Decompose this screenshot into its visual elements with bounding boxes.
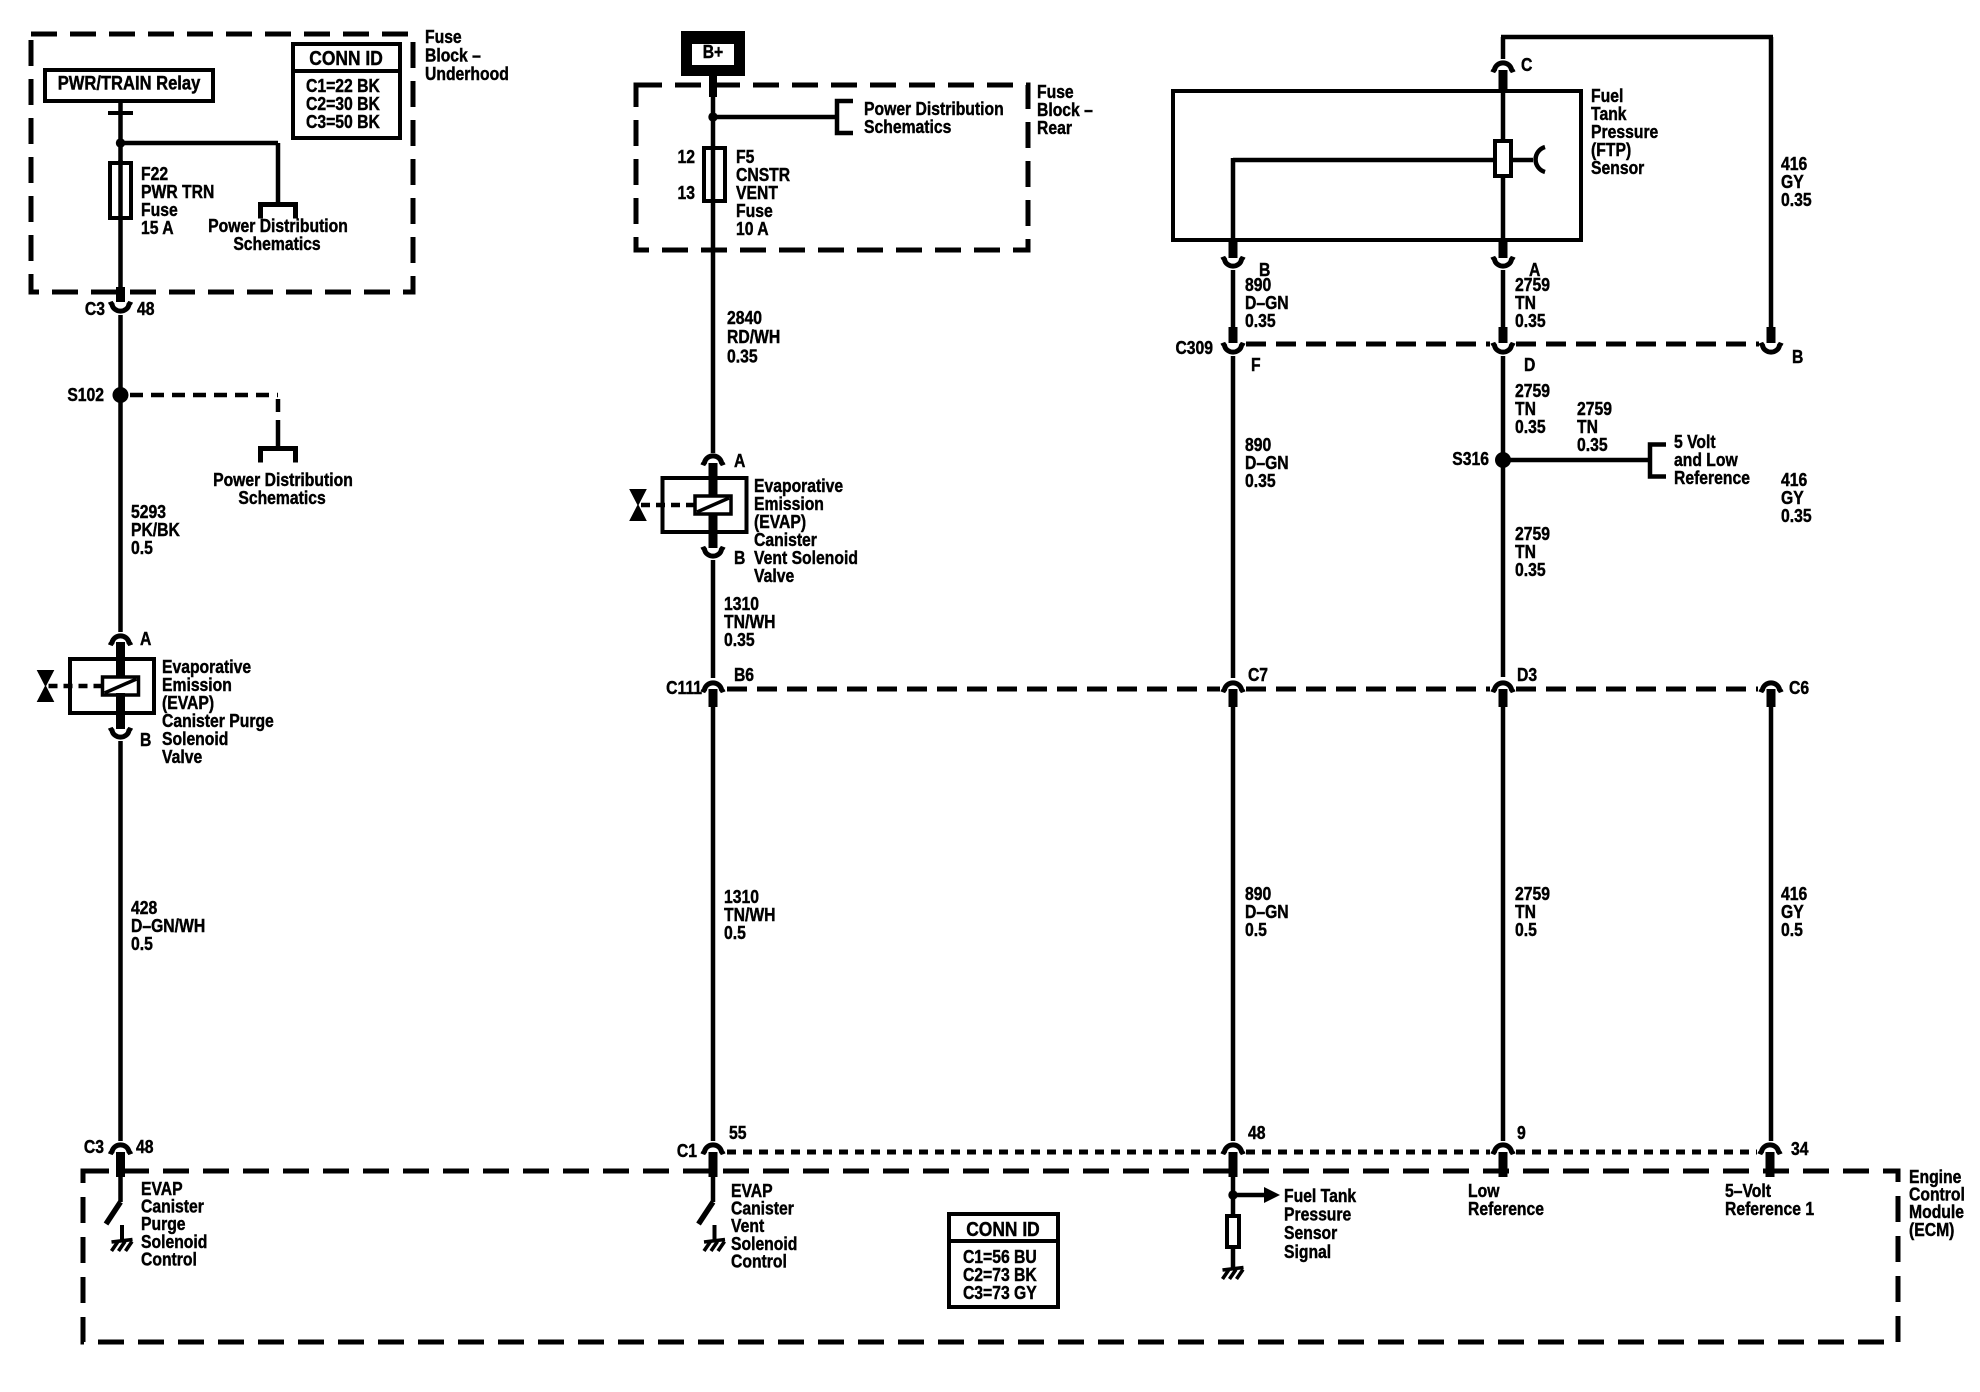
wire label 2759 TN 0.35 (upper) [1515,274,1550,332]
svg-text:0.35: 0.35 [1515,416,1546,438]
EVAP purge solenoid valve body box [70,659,154,713]
wire S316 to 5 volt ref [1503,458,1650,463]
label Low Reference [1468,1180,1544,1220]
EVAP canister purge solenoid control driver ground lead [120,1225,124,1241]
FTP sensor element [1495,141,1511,176]
EVAP canister purge solenoid control driver switch blade [106,1202,121,1224]
svg-text:0.35: 0.35 [727,345,758,367]
EVAP canister vent solenoid control driver lead [711,1177,716,1202]
connector C111 pin D3 [1493,683,1513,707]
wire S316 to D3 [1501,463,1506,677]
wire label 416 GY 0.5 [1781,883,1807,941]
wire label 2759 TN 0.5 [1515,883,1550,941]
svg-text:Reference: Reference [1468,1198,1544,1220]
svg-text:9: 9 [1517,1122,1526,1144]
EVAP purge solenoid valve dashed link [49,684,103,689]
FTP sensor box [1173,91,1581,240]
wire label 1310 TN/WH 0.35 [724,593,775,651]
svg-text:C3: C3 [85,298,105,320]
svg-text:Valve: Valve [754,565,794,587]
wire F to C7 [1231,356,1236,678]
label Fuel Tank Pressure (FTP) Sensor [1591,85,1658,179]
svg-text:C6: C6 [1789,677,1809,699]
connector C309 pin D [1493,327,1513,352]
wire D to S316 [1501,356,1506,455]
svg-text:Schematics: Schematics [864,116,951,138]
ECM dashed box [83,1171,1898,1342]
svg-text:B6: B6 [734,664,754,686]
label Fuse Block - Underhood [425,26,509,85]
svg-text:Schematics: Schematics [238,487,325,509]
connector C3 pin 48 (bottom) [110,1145,130,1177]
wire label 2840 RD/WH 0.35 [727,307,780,367]
svg-text:B: B [734,547,745,569]
connector C1 pin 55 [703,1145,723,1177]
svg-text:15 A: 15 A [141,217,174,239]
wire C6 to pin 34 [1769,707,1774,1141]
wire B+ feed to FTP sensor pin C and 416 GY drop [1501,37,1773,331]
connector C309 pin F [1223,327,1243,352]
svg-text:0.35: 0.35 [724,629,755,651]
svg-text:55: 55 [729,1122,747,1144]
svg-text:S102: S102 [67,384,104,406]
label Evaporative Emission (EVAP) Canister Purge Solenoid Valve [162,656,274,768]
fuse F22 [110,163,131,218]
wire S102 to purge valve [118,398,123,632]
svg-text:10 A: 10 A [736,218,769,240]
svg-text:C1: C1 [677,1140,698,1162]
svg-text:0.5: 0.5 [131,537,153,559]
svg-text:C3: C3 [84,1136,104,1158]
svg-text:C3=50 BK: C3=50 BK [306,111,380,133]
label Evaporative Emission (EVAP) Canister Vent Solenoid Valve [754,475,858,587]
wire label 1310 TN/WH 0.5 [724,886,775,944]
connector C111 pin C7 [1223,683,1243,707]
FTP signal chassis ground [1223,1268,1244,1280]
svg-text:12: 12 [677,146,694,168]
wire pin A to C309 [1501,270,1506,330]
svg-text:Reference: Reference [1674,467,1750,489]
label Engine Control Module (ECM) [1909,1166,1965,1241]
connector ECM pin 48 [1223,1145,1243,1177]
wire B+ to F5 [711,95,716,250]
svg-text:Sensor: Sensor [1591,157,1645,179]
wire C7 to pin 48 [1231,707,1236,1141]
EVAP vent solenoid valve valve symbol [630,490,646,521]
connector C3 pin 48 (top) [110,287,130,311]
svg-text:0.35: 0.35 [1515,559,1546,581]
wire label 416 GY 0.35 (lower) [1781,469,1812,527]
svg-text:B: B [1792,346,1803,368]
svg-text:C309: C309 [1175,337,1213,359]
label Power Distribution Schematics (underhood) [208,215,348,255]
svg-text:Underhood: Underhood [425,63,509,85]
svg-text:S316: S316 [1452,448,1489,470]
svg-text:Control: Control [141,1248,197,1270]
connector C111 dashed line [727,687,1758,692]
label F5 CNSTR VENT Fuse 10 A [736,146,791,240]
label F22 PWR TRN Fuse 15 A [141,163,214,239]
wire junction to power distribution ref (rear) [711,115,839,120]
FTP signal ground lead [1231,1249,1236,1269]
svg-text:0.35: 0.35 [1781,505,1812,527]
svg-text:48: 48 [136,1136,154,1158]
EVAP vent solenoid valve body box [663,478,747,532]
connector pin B of vent valve [703,547,723,556]
wire D3 to pin 9 [1501,707,1506,1141]
wire label 428 D-GN/WH 0.5 [131,897,205,955]
relay K PWR/TRAIN box [45,70,213,101]
wire relay to junction [118,101,123,165]
FTP sensor internal wires [1233,158,1533,240]
label EVAP Canister Purge Solenoid Control [141,1178,207,1270]
pin A stub (purge valve) [116,642,125,677]
off-page ref symbol (power distribution, S102) [261,449,296,463]
connector pin B of FTP sensor [1223,257,1243,266]
EVAP vent solenoid valve dashed link [641,503,695,508]
svg-text:D: D [1524,354,1535,376]
battery feed B+ box [683,33,743,74]
pin A stub (vent valve) [709,463,718,497]
wire vent valve to C111 [711,560,716,678]
off-page bracket (5 volt and low reference) [1650,445,1666,477]
EVAP canister vent solenoid control driver ground lead [713,1225,717,1241]
label EVAP Canister Vent Solenoid Control [731,1180,797,1272]
CONN ID table (underhood) [293,44,400,138]
junction under relay [116,138,125,147]
FTP signal pull resistor [1227,1216,1239,1247]
wire label 2759 TN 0.35 (above S316) [1515,380,1550,438]
label 5-Volt Reference 1 [1725,1180,1815,1220]
off-page ref symbol (power distribution, underhood) [261,205,296,219]
svg-text:B: B [140,729,151,751]
wire label 890 D-GN 0.5 [1245,883,1289,941]
B+ stub [709,74,717,97]
svg-text:0.35: 0.35 [1245,470,1276,492]
dashed branch from S102 [130,395,278,448]
wire F5 to vent valve [711,250,716,453]
wire label 5293 PK/BK 0.5 [131,501,180,559]
CONN ID table (ECM) [949,1214,1058,1307]
wire label 890 D-GN 0.35 (lower) [1245,434,1289,492]
FTP signal junction [1228,1190,1237,1199]
svg-text:C111: C111 [666,677,702,699]
svg-text:0.35: 0.35 [1515,310,1546,332]
connector C309 pin B [1761,327,1781,352]
FTP sensor element lead [1501,93,1506,143]
svg-text:34: 34 [1791,1138,1809,1160]
EVAP canister vent solenoid control driver switch blade [699,1202,714,1224]
svg-text:CONN ID: CONN ID [309,48,383,71]
connector C111 pin C6 [1761,683,1781,707]
svg-text:Rear: Rear [1037,117,1072,139]
FTP signal input lead [1231,1177,1236,1216]
svg-text:Schematics: Schematics [233,233,320,255]
svg-text:0.5: 0.5 [1781,919,1803,941]
FTP sensor wiper arc [1536,147,1545,172]
pin A stub (FTP sensor) [1499,239,1508,258]
wire C111 to C1 [711,707,716,1141]
svg-text:Reference 1: Reference 1 [1725,1198,1815,1220]
svg-text:13: 13 [677,182,694,204]
connector pin C of FTP sensor [1493,63,1513,72]
EVAP canister purge solenoid control driver lead [118,1177,123,1202]
wire branch to power distribution ref [118,143,278,204]
splice S316 [1495,452,1511,468]
wire label 2759 TN 0.35 (below S316) [1515,523,1550,581]
pin B stub (FTP sensor) [1229,239,1238,258]
EVAP vent solenoid valve coil [695,496,731,514]
junction under B+ [708,112,717,121]
label Power Distribution Schematics (S102) [213,469,353,509]
connector pin A of purge valve [110,636,130,645]
pin C stub [1499,70,1508,93]
wire label 2759 TN 0.35 (branch) [1577,398,1612,456]
connector C309 dashed line [1246,342,1759,347]
svg-text:CONN ID: CONN ID [966,1219,1040,1242]
wire label 416 GY 0.35 (upper) [1781,153,1812,211]
EVAP purge solenoid valve valve symbol [38,671,54,702]
svg-text:Valve: Valve [162,746,202,768]
svg-text:C: C [1521,54,1532,76]
EVAP canister purge solenoid control driver chassis ground [112,1240,133,1252]
svg-text:Control: Control [731,1250,787,1272]
label Power Distribution Schematics (rear) [864,98,1004,138]
svg-text:F: F [1251,354,1261,376]
svg-text:(ECM): (ECM) [1909,1219,1954,1241]
svg-text:0.5: 0.5 [724,922,746,944]
wire purge valve to ECM [118,741,123,1141]
relay terminal tick [108,111,133,115]
connector ECM pin 34 [1760,1145,1780,1177]
wire C3 to S102 [118,315,123,392]
wire pin B to C309 [1231,270,1236,330]
label Fuse Block - Rear [1037,81,1093,139]
svg-text:0.35: 0.35 [1245,310,1276,332]
connector ECM pin 9 [1493,1145,1513,1177]
wire label 890 D-GN 0.35 (upper) [1245,274,1289,332]
svg-text:0.5: 0.5 [131,933,153,955]
svg-text:B+: B+ [703,41,724,63]
connector pin B of purge valve [110,728,130,737]
fuse block rear dashed box [636,85,1028,250]
pin B stub (vent valve) [709,513,718,548]
svg-text:C7: C7 [1248,664,1268,686]
connector C111 pin B6 [703,683,723,707]
label Fuel Tank Pressure Sensor Signal [1284,1185,1357,1263]
svg-text:0.35: 0.35 [1577,434,1608,456]
wire F22 to C3 [118,160,123,290]
fuse block underhood dashed box [31,34,413,292]
off-page bracket (power distribution, rear) [837,101,853,133]
svg-text:A: A [734,450,745,472]
connector pin A of vent valve [703,456,723,465]
connector pin A of FTP sensor [1493,257,1513,266]
FTP signal arrow [1233,1187,1280,1203]
svg-text:Signal: Signal [1284,1241,1331,1263]
svg-text:PWR/TRAIN Relay: PWR/TRAIN Relay [58,72,201,94]
svg-text:0.5: 0.5 [1245,919,1267,941]
svg-text:C3=73 GY: C3=73 GY [963,1282,1037,1304]
label 5 Volt and Low Reference [1674,431,1750,489]
svg-text:RD/WH: RD/WH [727,326,780,348]
svg-text:0.5: 0.5 [1515,919,1537,941]
EVAP canister vent solenoid control driver chassis ground [704,1240,725,1252]
fuse F5 [704,148,725,201]
pin B stub (purge valve) [116,693,125,729]
EVAP purge solenoid valve coil [103,677,139,695]
svg-text:48: 48 [1248,1122,1266,1144]
svg-text:48: 48 [137,298,155,320]
svg-text:0.35: 0.35 [1781,189,1812,211]
connector C1 dotted line [727,1150,1757,1155]
svg-text:D3: D3 [1517,664,1537,686]
svg-text:A: A [140,628,151,650]
splice S102 [113,387,129,403]
